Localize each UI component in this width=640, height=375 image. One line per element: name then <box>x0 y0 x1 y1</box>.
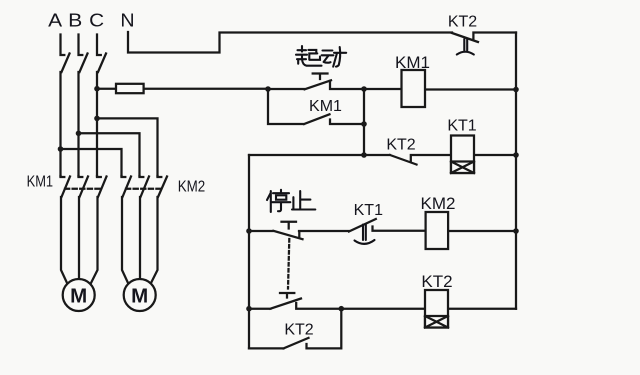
svg-text:M: M <box>70 285 87 308</box>
svg-text:KM1: KM1 <box>309 98 342 115</box>
svg-text:KM2: KM2 <box>178 179 206 196</box>
svg-text:KT2: KT2 <box>284 322 313 339</box>
svg-text:KT2: KT2 <box>448 14 477 31</box>
svg-text:KM1: KM1 <box>395 53 430 72</box>
svg-text:C: C <box>89 11 104 31</box>
svg-text:KM2: KM2 <box>421 194 456 213</box>
svg-text:KT2: KT2 <box>386 137 415 154</box>
svg-text:A: A <box>48 11 62 31</box>
svg-text:KT1: KT1 <box>354 202 383 219</box>
svg-text:KT2: KT2 <box>421 272 452 291</box>
svg-text:KM1: KM1 <box>27 174 54 191</box>
svg-text:M: M <box>131 285 148 308</box>
svg-text:B: B <box>68 11 82 31</box>
svg-text:N: N <box>120 11 134 31</box>
svg-text:KT1: KT1 <box>447 118 476 135</box>
